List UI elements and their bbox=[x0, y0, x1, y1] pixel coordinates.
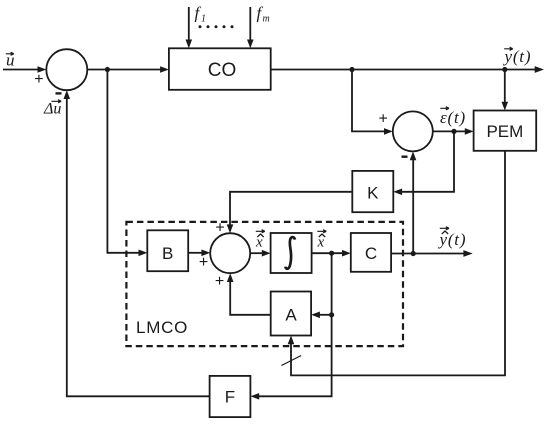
minus S1 bbox=[56, 92, 62, 94]
svg-text:+: + bbox=[215, 273, 224, 290]
block PEM bbox=[474, 111, 537, 151]
svg-text:A: A bbox=[285, 306, 297, 325]
wire S2 to PEM bbox=[433, 128, 474, 135]
label epsilon(t) vec bbox=[440, 107, 466, 127]
svg-text:y(t): y(t) bbox=[503, 47, 532, 66]
wire A to S3 bottom bbox=[227, 273, 271, 315]
summing junction S3 bbox=[210, 233, 250, 273]
svg-text:+: + bbox=[199, 254, 208, 271]
svg-text:+: + bbox=[34, 71, 43, 88]
label x-hat dot (before integrator) bbox=[255, 230, 265, 251]
integral sign bbox=[285, 237, 295, 269]
svg-text:C: C bbox=[365, 244, 377, 263]
svg-text:ε(t): ε(t) bbox=[440, 108, 466, 127]
svg-text:B: B bbox=[162, 244, 173, 263]
wire f1 input bbox=[186, 7, 193, 48]
label x-hat (after integrator) bbox=[317, 230, 327, 251]
label y-hat(t) vec bbox=[438, 227, 467, 249]
node x-hat bbox=[329, 251, 334, 256]
label u vec bbox=[6, 51, 15, 70]
svg-text:x: x bbox=[255, 235, 263, 251]
svg-text:LMCO: LMCO bbox=[136, 318, 188, 337]
node branch to PEM bbox=[502, 67, 507, 72]
label delta u vec bbox=[43, 100, 61, 118]
wire S3 to integrator bbox=[250, 250, 270, 257]
block CO bbox=[169, 48, 271, 90]
label y(t) vec bbox=[503, 47, 532, 66]
svg-text:+: + bbox=[379, 111, 388, 128]
block B bbox=[147, 230, 188, 271]
node epsilon out bbox=[451, 129, 456, 134]
summing junction S2 bbox=[393, 111, 433, 151]
block F bbox=[210, 376, 251, 417]
block integrator bbox=[271, 233, 312, 273]
wire F output to S1 minus bbox=[64, 90, 210, 396]
block K bbox=[352, 171, 393, 212]
wire to A input bbox=[311, 312, 332, 319]
wire S1 to CO bbox=[87, 66, 169, 73]
wire integrator to C bbox=[312, 250, 351, 257]
node A input bbox=[329, 312, 334, 317]
wire fm input bbox=[247, 7, 254, 48]
label fm bbox=[257, 4, 270, 25]
svg-text:CO: CO bbox=[208, 60, 237, 81]
node branch to epsilon bbox=[349, 67, 354, 72]
wire epsilon to K bbox=[393, 131, 454, 195]
wire branch to B bbox=[107, 70, 147, 257]
wire K to S3 top bbox=[227, 192, 353, 233]
wire B to S3 bbox=[188, 250, 210, 257]
svg-text:PEM: PEM bbox=[486, 122, 523, 141]
wire C output y-hat bbox=[391, 250, 473, 257]
slash tick bbox=[281, 356, 301, 366]
svg-text:m: m bbox=[263, 14, 270, 25]
svg-text:+: + bbox=[215, 220, 224, 237]
wire CO output to y(t) bbox=[271, 66, 544, 73]
block C bbox=[351, 233, 391, 272]
wire x-hat down to F bbox=[250, 253, 331, 399]
svg-text:K: K bbox=[367, 183, 379, 202]
block A bbox=[271, 292, 311, 336]
f dots bbox=[199, 25, 234, 28]
node y-hat branch bbox=[411, 251, 416, 256]
LMCO dashed box bbox=[126, 222, 403, 346]
summing junction S1 bbox=[46, 49, 87, 90]
wire branch down to S2 plus bbox=[352, 70, 393, 135]
wire PEM return to A bbox=[288, 151, 505, 376]
wire down to PEM top bbox=[502, 70, 509, 111]
label f1 bbox=[195, 4, 207, 25]
svg-text:F: F bbox=[225, 388, 235, 407]
wire y-hat up to S2 minus bbox=[410, 151, 417, 253]
minus S2 bbox=[402, 156, 408, 158]
svg-text:1: 1 bbox=[201, 14, 206, 25]
svg-text:y(t): y(t) bbox=[438, 230, 467, 249]
node after S1 bbox=[105, 67, 110, 72]
svg-text:x: x bbox=[317, 235, 325, 251]
wire u input bbox=[3, 66, 46, 73]
